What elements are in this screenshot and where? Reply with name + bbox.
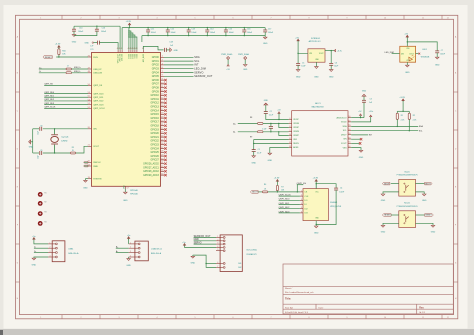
wire +3.3V rail to left caps	[74, 25, 120, 27]
wire SENSOR_OUT	[194, 237, 216, 239]
resistor R3 series 27R	[66, 68, 72, 70]
svg-text:Date:: Date:	[319, 306, 324, 309]
svg-text:GND: GND	[72, 41, 77, 43]
power +5V USB	[33, 238, 35, 241]
svg-text:PTS645SK50SMTR92LF5: PTS645SK50SMTR92LF5	[397, 206, 418, 208]
ground C6	[329, 70, 333, 72]
svg-text:12pF: 12pF	[38, 131, 40, 135]
svg-text:KiCad E.D.A. kicad 7.0.9: KiCad E.D.A. kicad 7.0.9	[285, 311, 309, 314]
svg-text:12: 12	[447, 317, 449, 319]
power +3.3V main	[129, 23, 131, 26]
svg-text:VREG_VIN: VREG_VIN	[120, 54, 122, 62]
svg-text:GPIO12: GPIO12	[150, 103, 159, 105]
svg-text:GND: GND	[123, 200, 128, 202]
capacitor C16 100nF	[243, 28, 245, 30]
svg-text:13: 13	[289, 146, 291, 148]
svg-text:GND: GND	[264, 100, 269, 102]
svg-text:BOOT: BOOT	[425, 183, 431, 185]
svg-text:USB_DP: USB_DP	[93, 69, 102, 71]
svg-text:C5: C5	[302, 62, 304, 64]
connector LOADCELL1	[135, 241, 148, 261]
border column/row ticks and labels	[61, 15, 63, 19]
capacitor C14 100nF	[206, 28, 208, 30]
wire pullup top bar	[397, 110, 409, 112]
wire C2 to VDDP	[266, 114, 289, 120]
svg-text:C18: C18	[169, 41, 172, 43]
wire SDA bus	[351, 125, 418, 127]
svg-text:SH1: SH1	[238, 263, 241, 265]
svg-text:GND: GND	[243, 69, 248, 71]
svg-text:1: 1	[217, 236, 218, 238]
svg-text:12MHz: 12MHz	[61, 141, 67, 143]
wire LED1 VSS to gnd	[406, 62, 408, 65]
wire gnd USB	[34, 257, 48, 258]
wire QSPI_SD3	[44, 104, 88, 106]
title block	[283, 264, 453, 314]
ground C10	[72, 35, 76, 37]
svg-text:4: 4	[157, 17, 158, 19]
svg-text:100nF: 100nF	[191, 32, 197, 34]
wire C8 to XIN	[43, 128, 88, 130]
capacitor C8 12pF	[39, 127, 41, 131]
svg-text:C11: C11	[151, 29, 154, 31]
mcu U2 RP2040 body	[92, 53, 161, 187]
power +3.3V at R10	[58, 46, 60, 49]
svg-text:R1: R1	[401, 115, 403, 117]
global label BOOT	[250, 191, 258, 194]
svg-text:DO: DO	[304, 200, 307, 202]
wire VB1/REFN to C1	[254, 139, 289, 141]
mounting hole H2	[38, 201, 43, 206]
svg-text:GND: GND	[83, 187, 88, 189]
wire left rail down to pin	[119, 26, 121, 50]
svg-text:VSS: VSS	[343, 147, 348, 149]
svg-text:100nF: 100nF	[171, 32, 177, 34]
capacitor C11 100nF	[147, 28, 149, 30]
wire D-	[39, 72, 66, 74]
svg-text:GND: GND	[359, 157, 364, 159]
wire R4 to CS	[268, 191, 300, 193]
svg-text:VIN1N: VIN1N	[293, 123, 299, 125]
mcu U2 top power pin names (vertical)	[117, 50, 119, 53]
svg-text:QSPI_SD0: QSPI_SD0	[93, 93, 104, 95]
svg-text:GND: GND	[381, 200, 386, 202]
svg-text:GPIO21: GPIO21	[150, 137, 159, 139]
wire QSPI_SD0	[44, 93, 88, 95]
svg-text:C13: C13	[191, 29, 194, 31]
svg-text:GND: GND	[251, 163, 256, 165]
wire RESET right	[416, 214, 425, 216]
svg-text:4: 4	[301, 203, 302, 205]
wire A+	[238, 123, 258, 125]
ground flash	[314, 226, 318, 228]
wire D+	[34, 252, 48, 254]
svg-text:GPIO18: GPIO18	[150, 125, 159, 127]
svg-text:GND: GND	[405, 72, 410, 74]
wire xtal left rail	[32, 129, 34, 153]
svg-text:GPIO11: GPIO11	[151, 99, 160, 101]
wire Boot1 right gnd	[416, 192, 425, 194]
svg-text:B4B--XH--A: B4B--XH--A	[151, 252, 162, 255]
svg-text:GPIO29_ADC3: GPIO29_ADC3	[143, 174, 159, 177]
svg-text:+3.3v: +3.3v	[337, 50, 342, 52]
svg-text:ADC1: ADC1	[315, 102, 321, 105]
svg-text:GPIO9: GPIO9	[152, 91, 160, 93]
crystal Y1 12MHz	[54, 129, 56, 134]
svg-text:1: 1	[40, 317, 41, 319]
svg-text:GPIO16: GPIO16	[150, 118, 159, 120]
svg-text:GND: GND	[268, 160, 273, 162]
wire GPIO4 to SERVO	[161, 72, 165, 74]
svg-text:GPIO3: GPIO3	[152, 68, 160, 70]
wire AVSS to gnd	[270, 148, 289, 154]
svg-text:RUN: RUN	[93, 57, 98, 59]
global label RESET	[43, 56, 52, 59]
ground regulator	[315, 67, 319, 69]
wire GPIO2 to INT	[161, 64, 165, 66]
svg-text:H2: H2	[44, 202, 46, 204]
resistor R1 2.2K	[396, 111, 398, 113]
resistor R2 2.2K	[408, 111, 410, 113]
svg-text:C3: C3	[370, 98, 372, 100]
resistor R6 series 27R	[66, 72, 72, 74]
svg-text:C7: C7	[441, 50, 443, 52]
wire LED_DIM to LED1	[392, 53, 400, 55]
svg-text:9: 9	[347, 17, 348, 19]
wire flash gnd	[315, 221, 317, 226]
svg-text:16: 16	[348, 133, 350, 135]
svg-text:6: 6	[217, 262, 218, 264]
wire R3 to USB_DP	[72, 68, 89, 70]
svg-text:AP2112K-3.3: AP2112K-3.3	[309, 40, 322, 43]
svg-text:RP2040: RP2040	[130, 194, 138, 196]
svg-text:GND: GND	[126, 265, 131, 267]
capacitor C3 1uF	[363, 102, 365, 117]
wire xtal bottom	[33, 152, 39, 154]
wire +5v to pin4	[185, 246, 217, 249]
svg-text:VREG_VOUT: VREG_VOUT	[118, 54, 120, 63]
wire C21 to USB_VDD pin	[99, 43, 118, 50]
wire R5 to XOUT	[76, 146, 88, 153]
wire VSS to gnd	[351, 148, 361, 151]
wire GPIO5 to SENSOR_OUT	[161, 75, 165, 77]
svg-text:H1: H1	[44, 193, 46, 195]
led module LED1 WS2812B	[400, 46, 416, 62]
svg-text:LED_DIM: LED_DIM	[194, 68, 206, 71]
svg-text:XOUT: XOUT	[341, 143, 347, 145]
svg-text:+3.3V: +3.3V	[274, 178, 280, 180]
flash FLASH1 W25Q16 body	[303, 189, 328, 221]
svg-text:6: 6	[301, 211, 302, 213]
mcu U2 bottom GND pin 57	[124, 186, 126, 189]
mounting hole H1	[38, 192, 43, 197]
svg-text:RP2040: RP2040	[130, 190, 138, 192]
svg-text:6: 6	[290, 118, 291, 120]
svg-text:BLT-COM4L: BLT-COM4L	[247, 249, 257, 251]
svg-text:VIN1P: VIN1P	[293, 127, 299, 129]
mcu right pins: unconnected GPIO rows with NC crosses	[161, 79, 165, 81]
svg-text:9: 9	[347, 317, 348, 319]
svg-text:11: 11	[289, 138, 291, 140]
wire AVDD row to +5V and C3	[351, 117, 364, 119]
svg-text:12pF: 12pF	[38, 155, 40, 159]
svg-text:5: 5	[195, 317, 196, 319]
svg-text:16: 16	[348, 120, 350, 122]
svg-text:+3.3V: +3.3V	[399, 97, 405, 99]
wire gnd loadcell	[128, 257, 130, 259]
svg-text:GPIO13: GPIO13	[150, 106, 159, 108]
wire +5V to LED1 VDD	[406, 39, 408, 47]
power +3.3V regulator output	[334, 50, 336, 52]
ground C18 (right facing)	[170, 48, 172, 52]
wire gnd rail of bank	[142, 35, 265, 37]
wire GPIO0 to SDA	[161, 56, 165, 58]
wire C16 gnd join	[74, 31, 97, 35]
svg-text:GPIO24: GPIO24	[150, 148, 159, 150]
ground above C3	[362, 94, 366, 96]
svg-text:R4: R4	[264, 184, 266, 186]
svg-text:GPIO27_ADC1: GPIO27_ADC1	[143, 166, 159, 169]
capacitor C16 100nF	[96, 26, 98, 29]
svg-text:GPIO5: GPIO5	[152, 76, 160, 78]
svg-text:LED1: LED1	[422, 49, 427, 51]
power +5V ADC	[278, 112, 280, 114]
svg-text:GPIO0: GPIO0	[152, 57, 160, 59]
wire XOUT nc	[351, 142, 359, 144]
wire C18 to gnd	[166, 49, 170, 51]
svg-text:3: 3	[217, 243, 218, 245]
svg-text:GND: GND	[32, 265, 37, 267]
wire gnd to pins	[193, 255, 216, 267]
wire Boot1 left gnd	[383, 192, 399, 194]
svg-text:C4: C4	[340, 188, 342, 190]
capacitor C2 0.1uF	[264, 111, 268, 113]
svg-text:Sheet: /: Sheet: /	[285, 287, 293, 290]
svg-text:SDA: SDA	[194, 56, 200, 59]
ground below mcu	[124, 192, 128, 194]
capacitor C6 10uF	[330, 51, 332, 64]
capacitor C15 100nF	[225, 28, 227, 30]
wire VOUT	[325, 50, 334, 52]
svg-text:R8: R8	[250, 117, 252, 119]
svg-text:LOADCELL1: LOADCELL1	[151, 248, 162, 251]
power +5v sensor	[184, 244, 186, 247]
wire RESET to RUN pin	[56, 56, 88, 58]
svg-text:2: 2	[217, 239, 218, 241]
wire junction to VIN1P	[279, 124, 289, 128]
wire SCL bus	[351, 130, 418, 132]
power +5V regulator input	[297, 39, 299, 42]
capacitor C7 100nF	[435, 50, 439, 52]
svg-text:GND: GND	[296, 77, 301, 79]
wire Reset1 right gnd	[416, 223, 434, 225]
svg-text:USB_DM: USB_DM	[93, 73, 102, 75]
svg-text:GPIO23: GPIO23	[150, 144, 159, 146]
wire DOUT nc	[416, 53, 419, 55]
svg-text:QSPI_SS: QSPI_SS	[93, 85, 103, 87]
svg-text:C1: C1	[258, 149, 260, 151]
capacitor C18 1uF	[163, 48, 165, 52]
power +5V loadcell	[128, 237, 130, 240]
svg-text:27: 27	[67, 65, 69, 67]
svg-text:Title:: Title:	[285, 297, 291, 301]
wire +5V to VIN	[298, 42, 308, 53]
svg-text:R5: R5	[72, 147, 74, 149]
svg-text:RJ45A1973: RJ45A1973	[247, 253, 257, 256]
wire R10	[58, 55, 60, 57]
svg-text:CLK: CLK	[304, 196, 309, 198]
svg-text:GPIO10: GPIO10	[150, 95, 159, 97]
svg-text:16: 16	[348, 142, 350, 144]
connector J2 sensor output	[220, 235, 242, 272]
wire A- loadcell	[116, 252, 129, 254]
svg-text:Id: 1/1: Id: 1/1	[419, 312, 426, 314]
svg-text:C2: C2	[270, 111, 272, 113]
power +3.3V flash VCC	[315, 180, 317, 183]
ground bank	[264, 36, 266, 38]
wire QSPI_SD1	[44, 96, 88, 98]
svg-text:3: 3	[50, 251, 51, 253]
svg-text:C15: C15	[229, 29, 232, 31]
svg-text:SENSOR_OUT: SENSOR_OUT	[194, 75, 213, 78]
svg-text:7: 7	[217, 266, 218, 268]
svg-text:2: 2	[81, 17, 82, 19]
ground USB	[32, 258, 36, 260]
svg-text:XOUT: XOUT	[93, 146, 100, 148]
svg-text:0.1uF: 0.1uF	[257, 153, 261, 155]
resistor R8	[258, 123, 264, 125]
wire BOOT left	[391, 183, 399, 185]
svg-text:USB_D-: USB_D-	[74, 71, 81, 73]
wire A-	[238, 131, 258, 133]
svg-text:SCL: SCL	[194, 60, 200, 63]
svg-text:GPIO1: GPIO1	[152, 61, 160, 63]
svg-text:GND: GND	[29, 146, 34, 148]
wire R8 to VIN1N	[263, 123, 289, 125]
svg-text:8: 8	[309, 17, 310, 19]
svg-text:100nF: 100nF	[151, 32, 157, 34]
global label SWD	[84, 165, 89, 167]
wire QSPI_SS drop	[297, 184, 304, 186]
svg-text:+5V: +5V	[295, 37, 299, 39]
wire QSPI_SCLK	[44, 107, 88, 109]
svg-text:GPIO6: GPIO6	[152, 80, 160, 82]
wire C9 to R5	[43, 152, 71, 154]
capacitor C4 100nF	[334, 187, 338, 189]
svg-text:C8: C8	[40, 126, 42, 128]
svg-text:+3.3v: +3.3v	[369, 111, 374, 113]
svg-text:BOOT: BOOT	[252, 192, 258, 194]
svg-text:2: 2	[81, 317, 82, 319]
svg-text:GND: GND	[381, 231, 386, 233]
svg-text:AVSS: AVSS	[293, 146, 299, 149]
wire QSPI_SD1	[279, 204, 300, 206]
svg-text:C16: C16	[247, 29, 250, 31]
ground loadcell	[127, 259, 131, 261]
svg-text:1: 1	[40, 17, 41, 19]
svg-text:XIN: XIN	[343, 139, 347, 141]
svg-text:VIN2N: VIN2N	[293, 131, 299, 133]
wire R9 to VIN2N	[263, 131, 289, 133]
svg-text:16: 16	[348, 116, 350, 118]
wire QSPI_SD2	[44, 100, 88, 102]
svg-text:C12: C12	[171, 29, 174, 31]
svg-text:16: 16	[348, 137, 350, 139]
wire VDDD row to +3.3V	[351, 117, 371, 122]
svg-text:3V3REG1: 3V3REG1	[311, 38, 321, 40]
svg-text:10: 10	[384, 17, 386, 19]
svg-text:+5V: +5V	[404, 34, 408, 36]
svg-text:5: 5	[195, 17, 196, 19]
wire QSPI_SD0	[279, 199, 300, 201]
capacitor C5 10uF	[297, 53, 299, 63]
resistor R10 pullup	[58, 49, 60, 55]
svg-text:6: 6	[233, 317, 234, 319]
svg-text:GPIO25: GPIO25	[150, 152, 159, 154]
global label SWCLK	[84, 161, 89, 163]
ground LED1	[406, 65, 410, 67]
svg-text:GPIO22: GPIO22	[150, 141, 159, 143]
svg-text:1: 1	[50, 242, 51, 244]
svg-text:VOUT: VOUT	[319, 53, 324, 55]
svg-text:5: 5	[301, 207, 302, 209]
svg-text:A-: A-	[233, 131, 235, 134]
svg-text:57: 57	[127, 188, 129, 190]
svg-text:GND: GND	[435, 64, 440, 66]
svg-text:Rev.: Rev.	[419, 307, 424, 309]
svg-text:16: 16	[348, 146, 350, 148]
wire +5V loadcell pin1	[128, 240, 130, 244]
connector USB1	[52, 241, 65, 262]
svg-text:GPIO14: GPIO14	[150, 110, 159, 112]
resistor R7 10K	[276, 185, 278, 190]
svg-text:9: 9	[290, 130, 291, 132]
svg-text:1: 1	[130, 242, 131, 244]
svg-text:BOOT: BOOT	[384, 183, 390, 185]
capacitor C9f differential	[269, 125, 273, 127]
wire C4 down to gnd	[316, 190, 336, 225]
mounting hole H3	[38, 211, 43, 216]
svg-text:VDDP: VDDP	[293, 119, 299, 121]
capacitor C13 100nF	[188, 28, 190, 30]
wire QSPI_SCLK	[279, 195, 300, 197]
svg-text:R10: R10	[62, 50, 65, 52]
wire D-	[34, 247, 48, 249]
svg-text:VIN2P: VIN2P	[293, 135, 299, 137]
svg-text:4: 4	[217, 246, 218, 248]
wire GND row	[194, 240, 216, 242]
wire regulator gnd	[315, 62, 317, 66]
svg-text:GND: GND	[174, 50, 179, 52]
svg-text:GND: GND	[191, 263, 196, 265]
svg-text:AVDD/LDO: AVDD/LDO	[337, 116, 348, 119]
wire RESET left	[391, 214, 399, 216]
svg-text:GPIO19: GPIO19	[150, 129, 159, 131]
svg-text:RESET: RESET	[425, 215, 432, 217]
wire QSPI_SD2	[279, 208, 300, 210]
svg-text:C6: C6	[335, 62, 337, 64]
svg-text:Crystal1: Crystal1	[61, 136, 69, 139]
ground C1	[252, 156, 256, 158]
wire BOOT right	[416, 183, 425, 185]
svg-text:PWR_FLAG: PWR_FLAG	[238, 53, 249, 56]
capacitor C9 12pF	[39, 151, 41, 155]
svg-text:7: 7	[271, 17, 272, 19]
svg-text:100nF: 100nF	[78, 31, 84, 33]
svg-text:7: 7	[271, 317, 272, 319]
svg-text:QSPI_SD2: QSPI_SD2	[93, 101, 104, 103]
svg-text:C17: C17	[268, 29, 271, 31]
